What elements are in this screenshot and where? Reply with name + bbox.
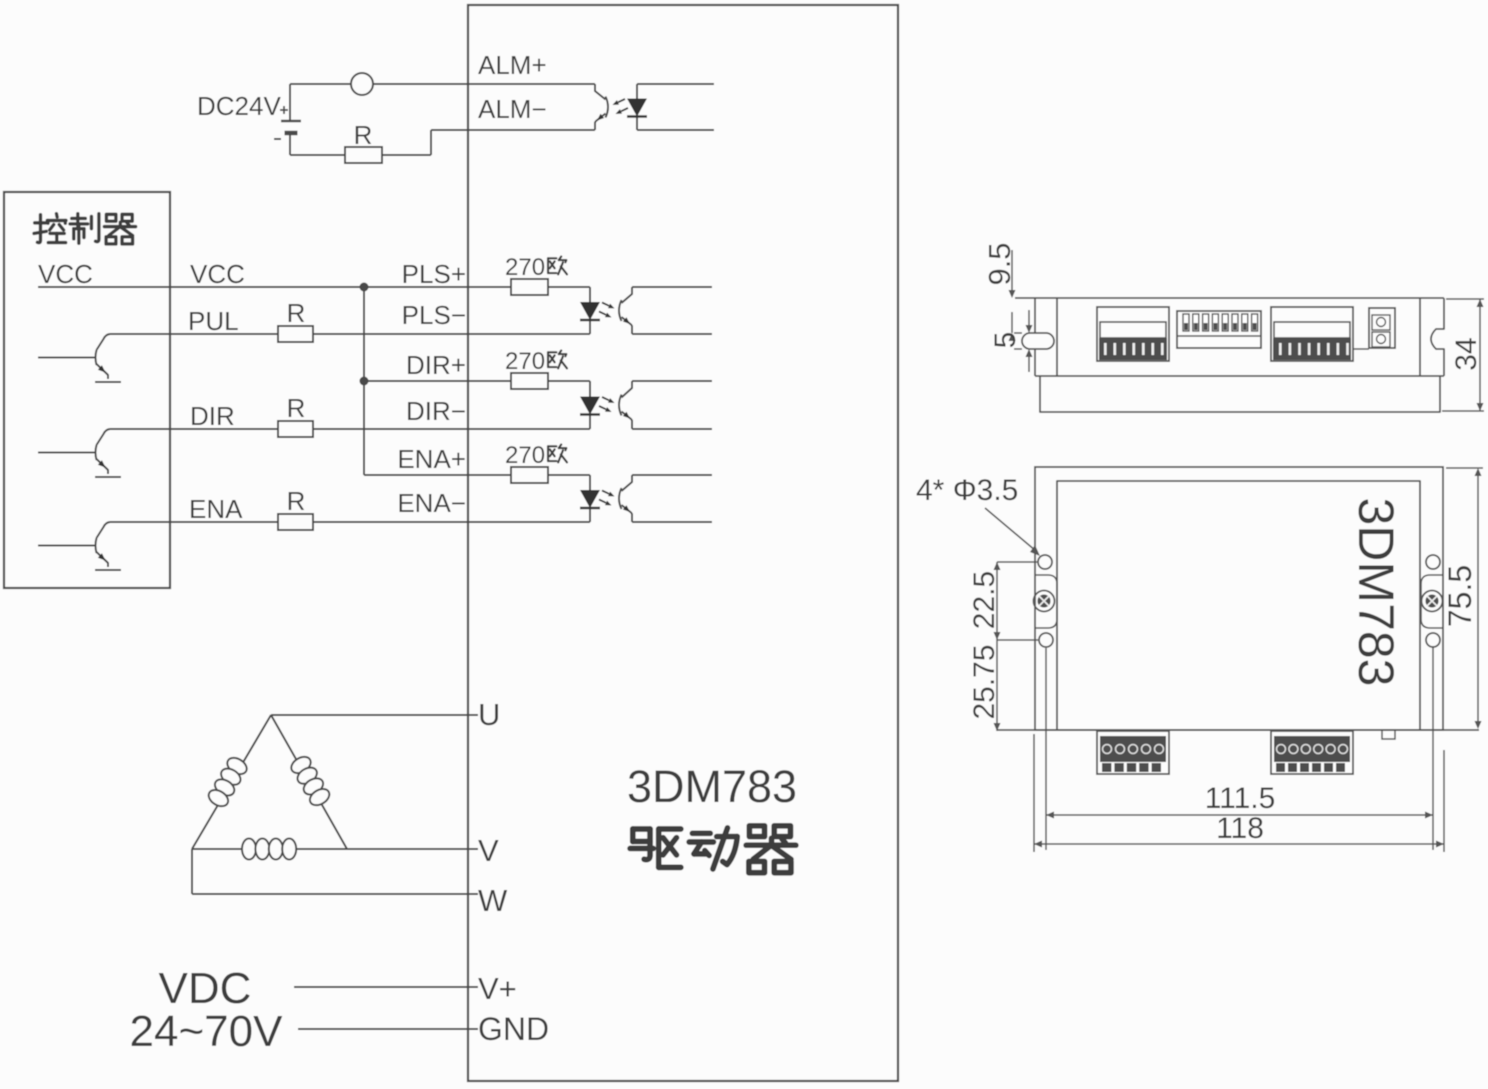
controller box [4, 192, 170, 588]
opto U4 phototransistor (ENA) [599, 475, 712, 522]
svg-text:118: 118 [1216, 812, 1264, 845]
dim label 5 [989, 310, 1033, 372]
svg-text:75.5: 75.5 [1442, 565, 1478, 627]
side view mounting slot (left) [1022, 333, 1054, 349]
lamp/relay circle [290, 73, 595, 95]
svg-text:VCC: VCC [190, 259, 245, 289]
pin label PLS- [402, 300, 466, 330]
LED opto U5 (ALM) [627, 84, 714, 130]
svg-text:ENA−: ENA− [397, 488, 466, 518]
label 驱动器 (driver) [630, 826, 796, 873]
label PUL [188, 306, 239, 336]
resistor R1 (PUL) [110, 298, 590, 342]
svg-text:R: R [354, 120, 373, 150]
mounting hole top-left [1038, 555, 1052, 569]
svg-text:270: 270 [505, 348, 545, 375]
dim 118 [1034, 734, 1444, 852]
opto U2 phototransistor (PLS) [599, 287, 712, 334]
dim label 34 [1442, 299, 1484, 411]
svg-text:34: 34 [1450, 337, 1483, 370]
dim label 9.5 [982, 242, 1017, 341]
mounting hole top-right [1426, 555, 1440, 569]
wire ENA+ [364, 474, 511, 476]
LED opto U4 input (ENA) [580, 475, 600, 522]
svg-text:U: U [478, 697, 500, 732]
label 3DM783 (front view) [1348, 498, 1404, 687]
resistor R3 (ENA) [110, 486, 590, 530]
svg-text:R: R [287, 393, 306, 423]
svg-text:DIR−: DIR− [406, 396, 466, 426]
svg-text:25.75: 25.75 [968, 644, 1001, 719]
resistor R4 (ALM) [290, 120, 431, 163]
junction vertical wire [363, 287, 365, 475]
pin label DIR- [406, 396, 466, 426]
wire U [271, 697, 500, 732]
svg-text:DIR+: DIR+ [406, 350, 466, 380]
label 24~70V [130, 1007, 284, 1056]
battery plus sign [280, 106, 288, 114]
wire V+ [294, 971, 517, 1006]
wire ALM- riser [431, 130, 595, 155]
small tab (front view) [1382, 730, 1395, 739]
battery minus sign [274, 138, 281, 140]
inductor coil L3 (bottom) [242, 839, 296, 860]
transistor Q3 (ENA) [38, 522, 121, 570]
LED opto U3 input (DIR) [580, 381, 600, 429]
delta winding edges [192, 715, 347, 849]
label 4*phi3.5 [916, 474, 1040, 556]
dim 25.75 [968, 640, 1001, 731]
terminal block J5 (front view) [1271, 731, 1353, 774]
dim 75.5 [1442, 468, 1483, 729]
svg-text:V+: V+ [478, 971, 517, 1006]
side view body outline [1015, 298, 1444, 376]
svg-text:GND: GND [478, 1011, 549, 1047]
node junction dot 1 [360, 283, 369, 292]
svg-text:270: 270 [505, 442, 545, 469]
svg-text:VDC: VDC [159, 964, 252, 1013]
svg-text:ALM+: ALM+ [478, 50, 547, 80]
svg-text:24~70V: 24~70V [130, 1007, 284, 1056]
opto U5 phototransistor (ALM) [595, 84, 628, 130]
pin label ENA- [397, 488, 466, 518]
connector J3 (side view) [1353, 308, 1395, 349]
label VCC (outer) [190, 259, 245, 289]
label VCC (controller) [38, 259, 93, 289]
dim 22.5 [968, 562, 1038, 640]
svg-text:PLS−: PLS− [402, 300, 466, 330]
svg-text:111.5: 111.5 [1205, 782, 1276, 815]
resistor 270ohm (PLS) [511, 279, 590, 295]
svg-text:ENA+: ENA+ [397, 444, 466, 474]
battery BT1 plus plate [281, 84, 301, 121]
svg-text:DIR: DIR [190, 401, 235, 431]
transistor Q1 (PUL) [38, 334, 121, 382]
svg-text:R: R [287, 486, 306, 516]
pin label PLS+ [402, 259, 466, 289]
svg-text:3DM783: 3DM783 [627, 761, 797, 812]
label ENA [189, 494, 243, 524]
wire DIR+ [364, 380, 511, 382]
mounting tab (right) [1421, 575, 1443, 628]
pin label ENA+ [397, 444, 466, 474]
wire VCC to PLS+ [38, 286, 511, 288]
value label 270ou (PLS) [505, 254, 567, 281]
label DC24V [197, 91, 281, 121]
terminal block J4 (front view) [1097, 731, 1169, 774]
pin label ALM+ [478, 50, 547, 80]
label DIR [190, 401, 235, 431]
driver box 3DM783 [468, 5, 898, 1081]
svg-text:270: 270 [505, 254, 545, 281]
wire GND [298, 1011, 549, 1047]
opto U3 phototransistor (DIR) [599, 381, 712, 429]
svg-text:22.5: 22.5 [968, 571, 1001, 629]
label 控制器 (controller) [34, 214, 136, 244]
svg-text:W: W [478, 883, 508, 918]
dim 111.5 [1046, 646, 1433, 850]
svg-text:3DM783: 3DM783 [1348, 498, 1404, 687]
svg-text:R: R [287, 298, 306, 328]
DIP switch SW1 (side view) [1177, 311, 1261, 348]
pin label DIR+ [406, 350, 466, 380]
front view outer body [1035, 467, 1443, 730]
terminal block J2 (side view) [1271, 307, 1353, 361]
front view inner body [1057, 481, 1420, 730]
value label 270ou (ENA) [505, 442, 567, 469]
front view flange bottom line [997, 729, 1479, 731]
resistor 270ohm (DIR) [511, 373, 590, 389]
svg-text:5: 5 [989, 332, 1022, 349]
terminal block J1 (side view) [1097, 307, 1169, 361]
svg-text:PUL: PUL [188, 306, 239, 336]
svg-text:PLS+: PLS+ [402, 259, 466, 289]
node junction dot 2 [360, 377, 369, 386]
mounting tab (left) [1035, 575, 1057, 628]
wire V [347, 833, 499, 868]
mounting hole bottom-right [1426, 633, 1440, 647]
svg-text:4* Φ3.5: 4* Φ3.5 [916, 474, 1018, 507]
resistor R2 (DIR) [110, 393, 590, 437]
LED opto U2 input (PLS) [580, 287, 600, 334]
transistor Q2 (DIR) [38, 429, 121, 477]
battery BT1 minus plate [285, 133, 298, 155]
svg-text:DC24V: DC24V [197, 91, 281, 121]
inductor coil L1 (left) [206, 755, 250, 810]
label VDC [159, 964, 252, 1013]
value label 270ou (DIR) [505, 348, 567, 375]
wire W [192, 849, 508, 918]
inductor coil L2 (right) [288, 754, 332, 809]
mounting hole bottom-left [1039, 633, 1053, 647]
screw (left) [1034, 591, 1055, 612]
svg-text:VCC: VCC [38, 259, 93, 289]
resistor 270ohm (ENA) [511, 467, 590, 483]
label 3DM783 [627, 761, 797, 812]
screw (right) [1422, 591, 1443, 612]
svg-text:ALM−: ALM− [478, 94, 547, 124]
svg-text:ENA: ENA [189, 494, 243, 524]
pin label ALM- [478, 94, 547, 124]
side view bottom plate [1040, 376, 1440, 412]
svg-text:V: V [478, 833, 499, 868]
